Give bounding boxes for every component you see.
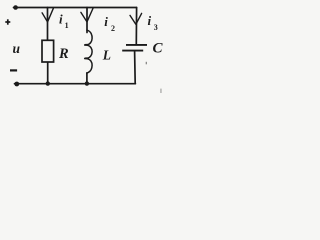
wire: C branch top segment	[135, 8, 137, 45]
svg-text:2: 2	[111, 24, 115, 33]
wire: bottom bus	[15, 83, 136, 85]
svg-text:C: C	[153, 40, 164, 56]
svg-text:u: u	[13, 41, 21, 56]
wire: L branch top segment	[86, 8, 88, 33]
label: + polarity of u	[5, 19, 10, 24]
resistor R (rectangle body)	[42, 40, 54, 62]
svg-text:L: L	[102, 48, 111, 63]
label: − polarity of u	[10, 69, 17, 71]
svg-text:R: R	[58, 46, 69, 62]
current arrow i2	[81, 8, 93, 22]
wire: top bus	[14, 7, 137, 9]
current arrow i3	[130, 13, 142, 24]
wire: R branch top segment	[47, 8, 49, 41]
current arrow i1	[42, 8, 53, 22]
junction: L branch bottom dot	[85, 81, 89, 85]
svg-text:i: i	[59, 12, 63, 27]
wire: L branch bottom segment	[86, 73, 88, 84]
svg-text:i: i	[104, 14, 108, 29]
svg-text:3: 3	[154, 23, 158, 32]
capacitor C (two plates)	[122, 45, 147, 51]
svg-text:1: 1	[65, 21, 69, 30]
svg-text:i: i	[148, 13, 152, 28]
wire: C branch bottom segment	[134, 51, 137, 83]
inductor L (3-loop coil)	[85, 30, 92, 73]
wire: R branch bottom segment	[47, 62, 49, 84]
node: top-left terminal dot	[13, 5, 18, 10]
node: bottom-left terminal dot	[14, 82, 19, 87]
junction: R branch bottom dot	[46, 81, 50, 85]
